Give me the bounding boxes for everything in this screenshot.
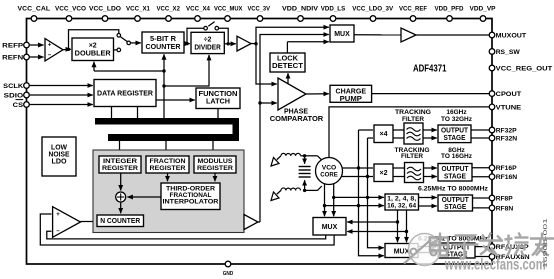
svg-text:MODULUS: MODULUS: [198, 158, 233, 165]
svg-text:STAGE: STAGE: [444, 135, 466, 142]
svg-text:6.25MHz TO 8000MHz: 6.25MHz TO 8000MHz: [418, 186, 489, 193]
svg-text:FILTER: FILTER: [402, 116, 424, 123]
svg-text:PHASE: PHASE: [284, 109, 308, 116]
svg-text:MUX: MUX: [322, 224, 338, 231]
svg-text:VCO: VCO: [322, 164, 337, 171]
svg-text:CS: CS: [13, 102, 24, 109]
svg-text:VTUNE: VTUNE: [496, 104, 522, 111]
svg-text:RF8P: RF8P: [496, 195, 513, 202]
svg-text:OUTPUT: OUTPUT: [442, 197, 470, 204]
svg-text:RF32P: RF32P: [496, 127, 517, 134]
svg-text:VCC_MUX: VCC_MUX: [214, 5, 243, 12]
svg-text:LOCK: LOCK: [277, 55, 298, 62]
svg-text:RF16N: RF16N: [496, 174, 518, 181]
svg-text:VCC_X2: VCC_X2: [156, 5, 180, 12]
svg-text:N COUNTER: N COUNTER: [100, 218, 140, 225]
svg-text:www.elecfans.com: www.elecfans.com: [444, 257, 546, 274]
svg-text:REFN: REFN: [2, 54, 23, 61]
svg-text:VCC_3V: VCC_3V: [247, 5, 270, 12]
svg-text:TO 32GHz: TO 32GHz: [441, 116, 473, 123]
svg-text:FUNCTION: FUNCTION: [199, 91, 238, 98]
svg-text:REFP: REFP: [2, 42, 24, 49]
svg-text:×2: ×2: [89, 43, 97, 50]
svg-text:LDO: LDO: [52, 158, 68, 165]
svg-text:ADF4371: ADF4371: [413, 63, 447, 75]
svg-text:VDD_LS: VDD_LS: [321, 5, 346, 12]
svg-text:VDD_VP: VDD_VP: [470, 5, 496, 12]
svg-text:FILTER: FILTER: [401, 153, 423, 160]
svg-text:PUMP: PUMP: [340, 96, 363, 103]
svg-text:VCC_VCO: VCC_VCO: [55, 5, 86, 12]
svg-text:MUXOUT: MUXOUT: [496, 32, 527, 39]
svg-text:STAGE: STAGE: [444, 204, 466, 211]
svg-text:VCC_X4: VCC_X4: [186, 5, 210, 12]
svg-text:VCC_CAL: VCC_CAL: [18, 5, 51, 12]
svg-text:RF8N: RF8N: [496, 205, 514, 212]
svg-text:DOUBLER: DOUBLER: [75, 51, 111, 58]
svg-text:CPOUT: CPOUT: [496, 91, 522, 98]
svg-text:VCC_LDO: VCC_LDO: [89, 5, 121, 12]
svg-text:OUTPUT: OUTPUT: [441, 128, 469, 135]
svg-text:RS_SW: RS_SW: [496, 49, 521, 56]
svg-text:GND: GND: [223, 271, 234, 277]
svg-text:×2: ×2: [380, 170, 388, 177]
svg-text:VCC_REF: VCC_REF: [399, 5, 427, 12]
svg-text:TRACKING: TRACKING: [395, 109, 431, 116]
svg-text:RF16P: RF16P: [496, 165, 517, 172]
svg-text:REGISTER: REGISTER: [102, 165, 138, 172]
svg-text:MUX: MUX: [394, 248, 410, 255]
svg-text:MUX: MUX: [334, 31, 350, 38]
svg-text:CHARGE: CHARGE: [336, 88, 367, 95]
svg-text:16, 32, 64: 16, 32, 64: [387, 202, 416, 209]
svg-text:INTEGER: INTEGER: [103, 158, 137, 165]
svg-text:REGISTER: REGISTER: [150, 165, 186, 172]
svg-text:COUNTER: COUNTER: [146, 44, 181, 51]
svg-text:VDD_PFD: VDD_PFD: [435, 5, 464, 12]
svg-text:DATA REGISTER: DATA REGISTER: [97, 91, 153, 98]
svg-text:DIVIDER: DIVIDER: [194, 44, 221, 51]
svg-text:LATCH: LATCH: [206, 99, 230, 106]
svg-text:VCC_X1: VCC_X1: [126, 5, 150, 12]
svg-text:16908-001: 16908-001: [543, 218, 549, 268]
svg-text:LOW: LOW: [51, 145, 67, 152]
svg-text:FRACTION: FRACTION: [150, 158, 186, 165]
svg-text:RF32N: RF32N: [496, 135, 518, 142]
svg-text:DETECT: DETECT: [272, 63, 304, 70]
svg-text:÷2: ÷2: [204, 36, 212, 43]
svg-text:+: +: [56, 212, 60, 218]
svg-text:SCLK: SCLK: [3, 83, 23, 90]
svg-text:COMPARATOR: COMPARATOR: [270, 116, 324, 123]
svg-text:16GHz: 16GHz: [446, 109, 467, 116]
svg-text:5-BIT R: 5-BIT R: [150, 36, 176, 43]
svg-text:VDD_NDIV: VDD_NDIV: [282, 5, 318, 12]
svg-text:STAGE: STAGE: [444, 173, 466, 180]
svg-text:CORE: CORE: [320, 172, 338, 179]
svg-text:OUTPUT: OUTPUT: [442, 166, 470, 173]
svg-text:×4: ×4: [380, 131, 388, 138]
svg-text:TO 16GHz: TO 16GHz: [441, 153, 473, 160]
svg-text:+: +: [48, 42, 52, 48]
svg-text:INTERPOLATOR: INTERPOLATOR: [163, 198, 219, 205]
svg-text:REGISTER: REGISTER: [197, 165, 233, 172]
svg-text:SDIO: SDIO: [4, 92, 24, 99]
svg-text:VCC_LDO_3V: VCC_LDO_3V: [352, 5, 393, 12]
svg-text:VCC_REG_OUT: VCC_REG_OUT: [496, 65, 553, 72]
